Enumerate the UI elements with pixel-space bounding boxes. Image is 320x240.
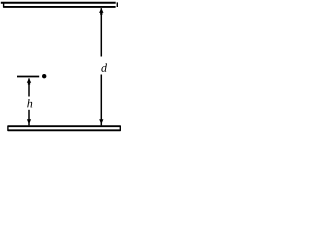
arrowhead down at bottom plate: [27, 119, 31, 124]
wire: d shaft upper segment: [100, 8, 102, 56]
bottom plate: [8, 126, 121, 131]
arrowhead up at platform: [27, 78, 31, 83]
wire: d shaft lower segment: [100, 75, 102, 126]
label d: [101, 63, 107, 71]
top plate: [1, 2, 118, 7]
dimension arrow d (vertical, between plates): [99, 8, 103, 125]
arrowhead down at bottom plate: [99, 119, 103, 124]
label h: [27, 99, 32, 107]
wire: h shaft upper segment: [28, 78, 30, 96]
background: [0, 0, 122, 134]
platform line (particle support): [17, 76, 39, 78]
wire: h shaft lower segment: [28, 110, 30, 126]
dimension arrow h (vertical, platform to bottom plate): [27, 78, 31, 125]
arrowhead up at top plate: [99, 8, 103, 13]
particle dot: [42, 74, 46, 78]
